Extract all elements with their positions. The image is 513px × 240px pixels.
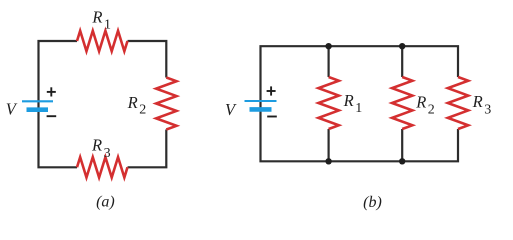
svg-text:2: 2 xyxy=(428,103,435,118)
minus sign (b) xyxy=(267,116,277,118)
junction dot top R1 (b) xyxy=(325,43,331,49)
svg-text:V: V xyxy=(6,99,18,118)
svg-text:1: 1 xyxy=(104,18,111,33)
svg-text:R: R xyxy=(343,91,354,110)
resistor R2 (b) zigzag xyxy=(392,77,412,129)
resistor R1 (b) zigzag xyxy=(318,77,338,129)
minus sign (a) xyxy=(47,115,57,117)
junction dot bottom R2 (b) xyxy=(399,158,405,164)
svg-text:R: R xyxy=(91,8,102,27)
resistor R3 (b) zigzag xyxy=(448,77,468,129)
wire (b) branch R1 lower xyxy=(328,129,330,161)
wire (b) branch R2 lower xyxy=(401,129,403,161)
svg-text:V: V xyxy=(225,100,237,119)
wire (b) branch R2 upper xyxy=(401,46,403,77)
wire (b) outer loop (right edge interrupted by R3) xyxy=(261,46,459,161)
svg-text:(a): (a) xyxy=(96,194,115,211)
svg-text:2: 2 xyxy=(139,103,146,118)
plus sign (a) xyxy=(47,87,56,96)
junction dot top R2 (b) xyxy=(399,43,405,49)
resistor R1 (a) zigzag xyxy=(77,31,128,51)
svg-text:R: R xyxy=(472,92,483,111)
plus sign (b) xyxy=(267,86,276,95)
svg-text:R: R xyxy=(127,93,138,112)
resistor R3 (a) zigzag xyxy=(77,157,128,177)
svg-text:3: 3 xyxy=(484,102,491,117)
svg-text:(b): (b) xyxy=(363,194,382,211)
wire (a) top-right + right side upper xyxy=(128,41,167,78)
junction dot bottom R1 (b) xyxy=(325,158,331,164)
svg-text:3: 3 xyxy=(104,146,111,161)
wire (a) right side lower + bottom-right xyxy=(128,130,167,168)
svg-text:1: 1 xyxy=(355,101,362,116)
svg-text:R: R xyxy=(415,93,426,112)
resistor R2 (a) zigzag xyxy=(156,78,176,130)
battery V (a) short thick plate xyxy=(27,107,49,112)
svg-text:R: R xyxy=(91,136,102,155)
battery V (b) short thick plate xyxy=(250,107,272,112)
battery V (a) long plate xyxy=(22,100,53,102)
battery V (b) long plate xyxy=(245,100,277,102)
wire (a) top-left + left side + bottom-left xyxy=(39,41,78,167)
wire (b) branch R1 upper xyxy=(328,46,330,77)
